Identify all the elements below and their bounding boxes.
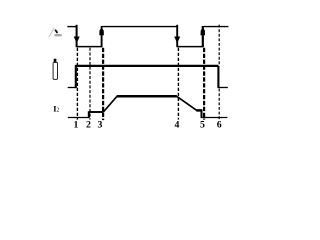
drop to baseline xyxy=(201,109,203,118)
up arrow on rising edge 1 xyxy=(99,28,104,35)
wire baseline right xyxy=(202,117,228,119)
wire mid flat xyxy=(89,111,104,113)
wire baseline left xyxy=(68,117,89,119)
wire low segment 1 xyxy=(77,46,102,48)
wire low segment 2 xyxy=(177,46,203,48)
time marker 4 dashed xyxy=(177,48,179,120)
signal 2 waveform xyxy=(68,65,228,88)
time marker 2 dashed xyxy=(89,48,91,120)
falling edge 2 xyxy=(176,25,178,47)
bottle / cartridge icon xyxy=(53,59,57,80)
rising edge 2 xyxy=(202,26,204,47)
time marker 3 dashed bold xyxy=(102,48,104,120)
wire high (bold) xyxy=(76,65,219,67)
falling edge 1 xyxy=(76,25,78,47)
rising edge 1 xyxy=(101,26,103,47)
time marker 1 dashed xyxy=(76,48,78,120)
up arrow on rising edge 2 xyxy=(201,28,206,35)
svg-text:1: 1 xyxy=(73,119,78,130)
wire post-ramp flat xyxy=(196,109,201,112)
signal 3 waveform xyxy=(68,96,228,118)
wire top flat (bold) xyxy=(117,95,177,98)
wire high segment C xyxy=(203,26,229,28)
wire low tail left xyxy=(68,87,76,89)
svg-text:2: 2 xyxy=(86,119,91,130)
down arrow on falling edge 1 xyxy=(74,37,80,44)
time marker 6 dashed upper xyxy=(218,25,220,65)
time marker 5 dashed bold xyxy=(203,48,205,120)
time marker 6 dashed lower xyxy=(218,89,220,121)
falling edge xyxy=(217,66,219,88)
ramp up xyxy=(104,97,117,112)
wire high segment B xyxy=(102,26,178,28)
wire low tail right xyxy=(218,87,227,89)
wire high segment A xyxy=(67,26,76,28)
manual-actuation hand icon xyxy=(49,28,62,38)
svg-text:2: 2 xyxy=(57,107,60,113)
signal 1 waveform xyxy=(67,25,228,47)
svg-text:3: 3 xyxy=(98,119,103,130)
ramp down xyxy=(177,96,197,110)
svg-text:4: 4 xyxy=(174,119,179,130)
step up xyxy=(88,111,90,118)
rising edge xyxy=(75,65,77,88)
down arrow on falling edge 2 xyxy=(174,37,180,44)
svg-text:5: 5 xyxy=(200,119,205,130)
svg-text:6: 6 xyxy=(217,119,222,130)
